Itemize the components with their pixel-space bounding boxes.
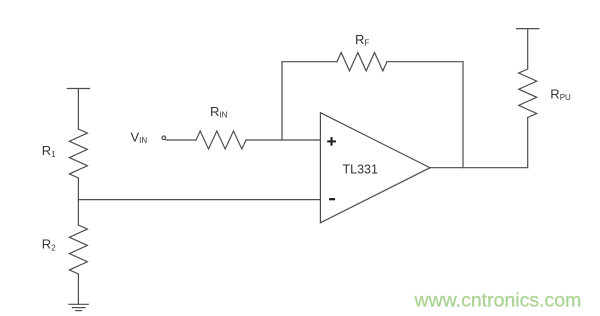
svg-text:RIN: RIN <box>210 104 228 120</box>
wire <box>77 274 79 304</box>
wire <box>166 139 196 141</box>
resistor R2 <box>69 225 87 274</box>
resistor RIN <box>196 131 246 149</box>
svg-text:R1: R1 <box>42 143 56 159</box>
ground <box>69 303 88 305</box>
supply terminal bar (pull-up top) <box>517 28 539 30</box>
resistor RF <box>337 53 387 71</box>
op-amp plus input marker <box>327 137 336 199</box>
input terminal (VIN) <box>162 136 166 140</box>
svg-text:RF: RF <box>355 32 369 48</box>
svg-text:VIN: VIN <box>131 130 148 146</box>
wire feedback riser <box>281 62 283 140</box>
wire <box>527 118 529 168</box>
wire to non-inverting input <box>246 139 320 141</box>
resistor RPU <box>519 69 537 118</box>
supply terminal bar (left divider top) <box>67 88 89 90</box>
op-amp minus input marker <box>329 198 335 200</box>
wire <box>77 200 79 225</box>
wire <box>282 61 337 63</box>
op-amp U1 TL331 <box>320 113 430 223</box>
resistor R1 <box>69 129 87 178</box>
wire output <box>430 167 528 169</box>
svg-text:TL331: TL331 <box>343 162 378 176</box>
wire <box>77 178 79 200</box>
wire <box>387 61 463 63</box>
svg-text:RPU: RPU <box>550 87 571 103</box>
svg-text:R2: R2 <box>42 236 56 252</box>
wire <box>527 29 529 69</box>
wire feedback drop to output <box>462 62 464 168</box>
node divider junction / wire to inverting input <box>78 199 320 201</box>
svg-text:www.cntronics.com: www.cntronics.com <box>414 290 582 312</box>
wire <box>77 89 79 130</box>
